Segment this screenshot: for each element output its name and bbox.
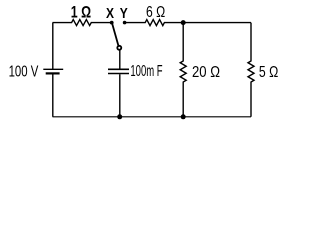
svg-text:20 Ω: 20 Ω [192,63,220,81]
svg-text:Y: Y [120,6,128,22]
svg-text:1 Ω: 1 Ω [71,4,91,22]
svg-text:100m F: 100m F [130,62,162,80]
svg-text:5 Ω: 5 Ω [259,63,278,81]
svg-text:6 Ω: 6 Ω [146,3,165,21]
svg-text:X: X [106,6,114,22]
svg-text:100 V: 100 V [9,62,39,80]
